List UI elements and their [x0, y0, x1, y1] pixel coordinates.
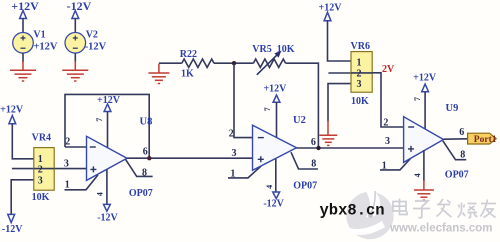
U9 pin 7 wire: [424, 92, 426, 130]
char you: [481, 203, 496, 205]
U8 pin 1 wire: [65, 175, 99, 190]
junction U2 output: [316, 146, 320, 150]
svg-text:U8: U8: [140, 116, 153, 127]
U2 pin 7 wire: [276, 102, 278, 138]
voltage source V1: [13, 33, 34, 54]
power flag +12V (U2 top): [263, 83, 287, 102]
power flag +12V (VR4 top): [0, 105, 24, 124]
svg-text:+12V: +12V: [33, 42, 57, 53]
svg-text:2: 2: [65, 136, 70, 147]
svg-text:7: 7: [95, 118, 104, 122]
svg-text:+12V: +12V: [413, 73, 437, 84]
svg-text:VR6: VR6: [351, 41, 370, 52]
ground (V1): [10, 61, 36, 81]
junction U8 output: [147, 156, 151, 160]
watermark CJK characters: [393, 199, 496, 218]
svg-text:www.elecfans.com: www.elecfans.com: [389, 223, 492, 235]
svg-text:OP07: OP07: [129, 188, 153, 199]
svg-text:10K: 10K: [32, 192, 50, 203]
power flag -12V (V2 top): [67, 0, 92, 19]
svg-text:2: 2: [383, 117, 388, 128]
wire +12V rail to VR4 pin1: [12, 124, 34, 159]
char shao: [461, 203, 463, 212]
power flag -12V (U2 bottom): [263, 192, 284, 209]
power flag -12V (U8 bottom): [97, 204, 118, 223]
potentiometer VR4: [34, 148, 54, 191]
wire arrow to V2: [74, 19, 76, 33]
svg-text:R22: R22: [180, 49, 197, 60]
junction R22/VR5 node: [232, 61, 236, 65]
svg-text:V1: V1: [33, 30, 45, 41]
svg-text:2: 2: [229, 128, 234, 139]
wire VR6 wiper to U9 pin 2: [372, 73, 403, 127]
U8 pin 4 wire: [106, 169, 108, 204]
svg-text:8: 8: [460, 150, 465, 161]
U8 pin 8 stub: [126, 159, 153, 176]
svg-text:7: 7: [263, 107, 272, 111]
svg-text:2V: 2V: [382, 64, 395, 75]
voltage source V2: [65, 33, 86, 54]
wire VR6 pin3 to ground: [328, 84, 351, 122]
svg-text:8: 8: [142, 168, 147, 179]
svg-text:-12V: -12V: [263, 198, 284, 209]
power flag +12V (U9 top): [413, 73, 437, 92]
wire R22 to junction to VR5: [214, 62, 253, 64]
svg-text:1: 1: [38, 154, 43, 165]
svg-text:-12V: -12V: [97, 212, 118, 223]
feedback wire U8 output to pin 2: [65, 94, 149, 158]
U2 pin 1 wire: [228, 166, 261, 178]
ground (U9): [414, 180, 434, 200]
U2 pin 8 stub: [291, 152, 318, 169]
svg-text:3: 3: [385, 136, 390, 147]
svg-text:VR5 10K: VR5 10K: [252, 44, 294, 55]
svg-text:U9: U9: [446, 103, 459, 114]
svg-text:2: 2: [357, 68, 362, 79]
resistor R22: [182, 59, 214, 67]
op-amp U8: [87, 136, 128, 180]
wire U8 output to U2 pin 3: [127, 157, 253, 159]
U9 pin 1 wire: [380, 159, 411, 170]
wire junction to U2 pin 2: [234, 63, 253, 137]
power flag +12V (VR6 top): [319, 2, 343, 21]
U2 pin 4 wire: [275, 159, 277, 192]
power flag -12V (VR4 bottom): [2, 214, 23, 234]
ground (V2): [62, 61, 88, 81]
svg-text:3: 3: [64, 159, 69, 170]
svg-text:4: 4: [96, 192, 105, 196]
wire V1 to ground: [22, 53, 24, 62]
U9 pin 4 wire: [423, 150, 425, 181]
potentiometer VR6: [351, 52, 372, 93]
svg-text:1: 1: [382, 160, 387, 171]
op-amp U2: [253, 125, 297, 170]
U8 pin 7 wire: [107, 112, 109, 149]
svg-text:OP07: OP07: [293, 181, 317, 192]
U9 pin 8 stub: [443, 141, 466, 160]
char fa: [437, 204, 450, 206]
svg-text:2: 2: [38, 165, 43, 176]
svg-text:6: 6: [311, 137, 316, 148]
svg-text:7: 7: [413, 97, 422, 101]
svg-text:3: 3: [38, 175, 43, 186]
svg-text:4: 4: [265, 185, 274, 189]
svg-text:-12V: -12V: [67, 0, 92, 13]
potentiometer VR5: [253, 51, 285, 75]
svg-text:-12V: -12V: [2, 224, 23, 235]
svg-text:3: 3: [232, 148, 237, 159]
wire VR4 pin3 to -12V rail: [11, 180, 34, 214]
char zi: [415, 201, 428, 207]
port Port1: [468, 133, 497, 145]
svg-text:6: 6: [459, 127, 464, 138]
svg-text:Port1: Port1: [474, 135, 497, 145]
op-amp U9: [404, 117, 444, 163]
wire VR5 to U2 output (feedback): [286, 63, 319, 148]
wire U9 output to port: [444, 138, 468, 140]
svg-text:10K: 10K: [351, 96, 369, 107]
wire arrow to V1: [22, 19, 24, 33]
svg-text:V2: V2: [86, 30, 98, 41]
svg-text:-12V: -12V: [85, 42, 107, 53]
char dian: [393, 202, 406, 212]
svg-text:OP07: OP07: [445, 170, 469, 181]
svg-text:1K: 1K: [181, 68, 194, 79]
svg-text:3: 3: [357, 79, 362, 90]
svg-text:+12V: +12V: [319, 2, 343, 13]
svg-text:+12V: +12V: [0, 105, 24, 116]
svg-text:+12V: +12V: [263, 83, 287, 94]
svg-text:1: 1: [357, 58, 362, 69]
ground (R22 left): [148, 64, 169, 84]
svg-text:+12V: +12V: [11, 0, 39, 13]
wire ground to R22: [159, 62, 182, 64]
svg-text:+12V: +12V: [97, 95, 121, 106]
svg-text:1: 1: [65, 180, 70, 191]
wire +12V rail to VR6 pin1: [328, 21, 352, 61]
wire VR4 wiper to U8 pin3: [12, 168, 87, 170]
wire V2 to ground: [74, 53, 76, 62]
svg-text:ybx8.cn: ybx8.cn: [320, 202, 385, 220]
ground (VR6): [319, 121, 337, 146]
svg-text:4: 4: [413, 173, 422, 177]
svg-text:U2: U2: [293, 115, 306, 126]
watermark logo circle: [346, 186, 394, 239]
power flag +12V (V1 top): [11, 0, 39, 19]
wire U2 output to U9 pin 3: [297, 147, 404, 149]
power flag +12V (U8 top): [97, 95, 121, 112]
svg-text:8: 8: [311, 158, 316, 169]
U8 pin 2 wire: [65, 146, 87, 148]
svg-text:1: 1: [230, 168, 235, 179]
svg-text:VR4: VR4: [32, 133, 51, 144]
svg-text:6: 6: [143, 146, 148, 157]
wire VR6 wiper stub left: [328, 72, 351, 74]
